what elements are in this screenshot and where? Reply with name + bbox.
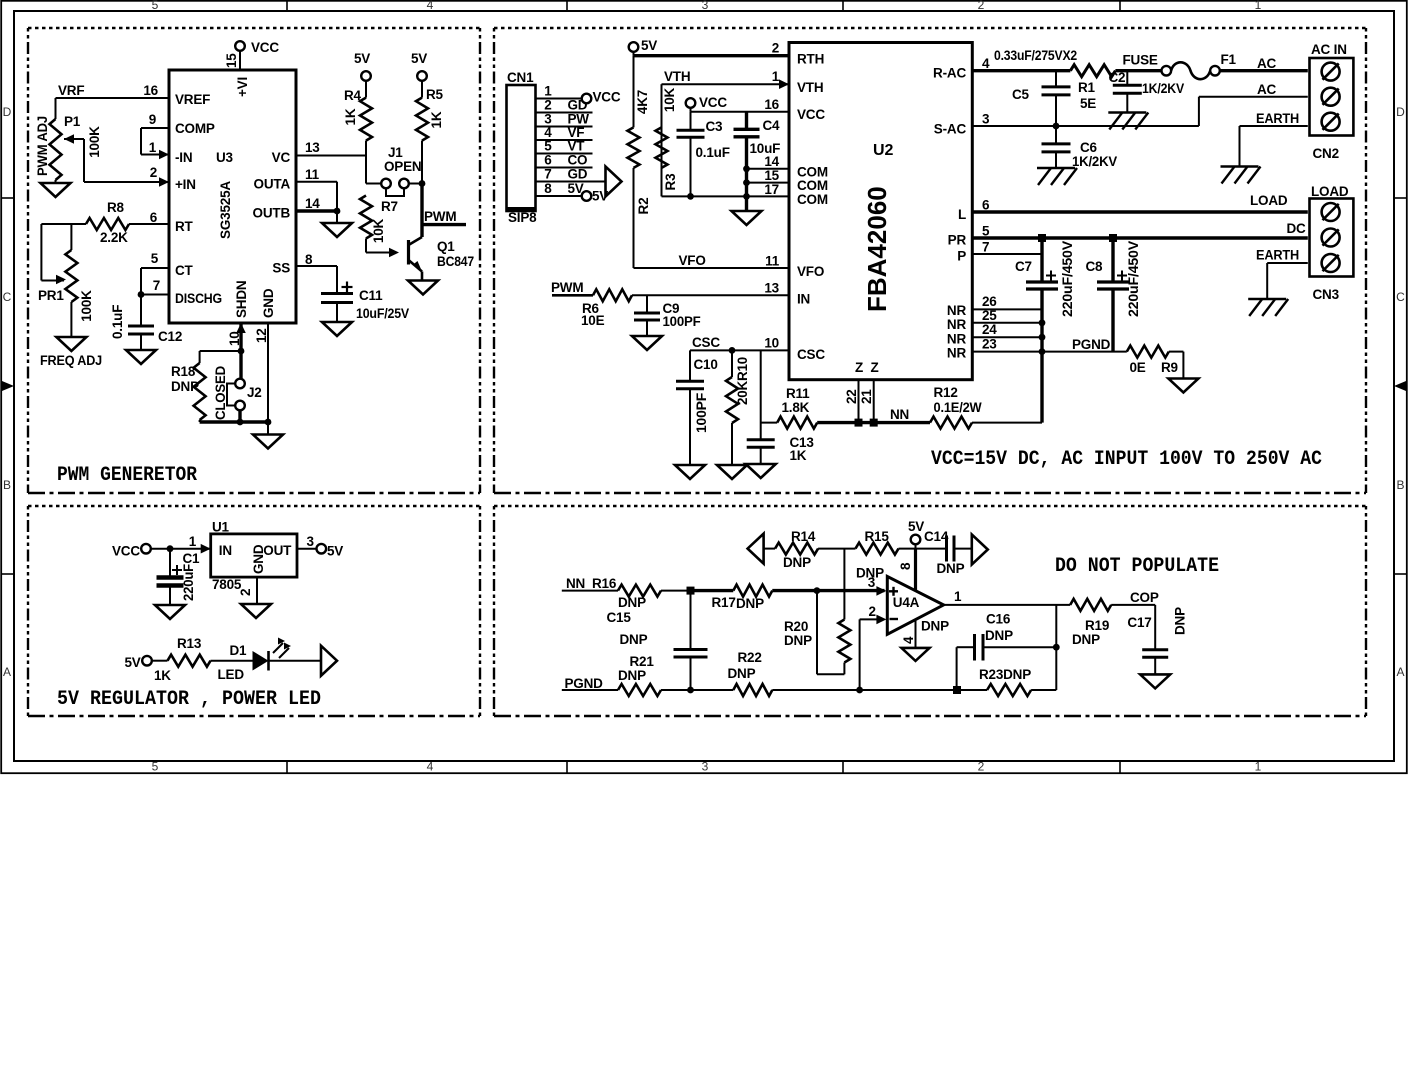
- svg-text:FBA42060: FBA42060: [862, 186, 892, 312]
- svg-text:PWM ADJ: PWM ADJ: [35, 116, 50, 176]
- svg-text:5V: 5V: [908, 519, 924, 534]
- svg-text:C6: C6: [1080, 140, 1098, 155]
- svg-text:DNP: DNP: [783, 555, 811, 570]
- svg-text:D: D: [1396, 105, 1405, 119]
- svg-text:2: 2: [544, 98, 551, 113]
- svg-text:SS: SS: [272, 261, 290, 276]
- svg-text:C5: C5: [1012, 87, 1030, 102]
- svg-text:7: 7: [153, 278, 160, 293]
- svg-text:VFO: VFO: [797, 264, 824, 279]
- svg-text:J1: J1: [388, 145, 403, 160]
- svg-text:3: 3: [702, 0, 709, 12]
- svg-text:CO: CO: [568, 153, 588, 168]
- svg-text:CSC: CSC: [797, 347, 825, 362]
- svg-text:6: 6: [150, 210, 158, 225]
- svg-text:R21: R21: [630, 654, 655, 669]
- svg-text:R20: R20: [784, 619, 808, 634]
- svg-text:2: 2: [978, 0, 985, 12]
- svg-text:100K: 100K: [79, 290, 94, 322]
- svg-text:+VI: +VI: [235, 77, 250, 97]
- svg-text:12: 12: [254, 328, 269, 343]
- svg-text:R19: R19: [1085, 618, 1109, 633]
- svg-text:IN: IN: [219, 543, 232, 558]
- svg-text:U3: U3: [216, 150, 234, 165]
- svg-text:4K7: 4K7: [635, 90, 650, 114]
- svg-text:21: 21: [859, 389, 874, 404]
- svg-text:+IN: +IN: [175, 177, 196, 192]
- svg-text:DNP: DNP: [1173, 607, 1188, 635]
- svg-text:R16: R16: [592, 576, 617, 591]
- svg-text:D: D: [3, 105, 12, 119]
- svg-text:1K/2KV: 1K/2KV: [1072, 154, 1117, 169]
- svg-text:VCC: VCC: [251, 40, 279, 55]
- svg-text:1: 1: [954, 589, 962, 604]
- svg-text:R8: R8: [107, 200, 125, 215]
- svg-text:OUT: OUT: [263, 543, 292, 558]
- svg-text:C: C: [3, 290, 12, 304]
- svg-text:100K: 100K: [87, 126, 102, 158]
- svg-text:COMP: COMP: [175, 121, 215, 136]
- svg-text:U1: U1: [212, 520, 230, 535]
- svg-text:NN: NN: [566, 576, 585, 591]
- svg-text:1K: 1K: [154, 668, 171, 683]
- svg-text:C2: C2: [1109, 70, 1126, 85]
- svg-text:AC: AC: [1257, 56, 1277, 71]
- svg-text:1K: 1K: [429, 111, 444, 128]
- svg-text:F1: F1: [1221, 52, 1237, 67]
- svg-text:J2: J2: [247, 385, 262, 400]
- svg-text:2: 2: [150, 165, 157, 180]
- svg-text:LED: LED: [218, 667, 245, 682]
- svg-text:VTH: VTH: [797, 80, 823, 95]
- svg-text:B: B: [1396, 478, 1404, 492]
- svg-text:FUSE: FUSE: [1123, 53, 1158, 68]
- svg-text:23: 23: [982, 337, 997, 352]
- svg-text:VTH: VTH: [664, 69, 690, 84]
- svg-text:1K: 1K: [343, 108, 358, 125]
- svg-text:VFO: VFO: [679, 253, 706, 268]
- svg-text:15: 15: [764, 168, 779, 183]
- svg-text:Z: Z: [855, 360, 863, 375]
- svg-text:R1: R1: [1078, 80, 1096, 95]
- svg-text:8: 8: [544, 181, 552, 196]
- svg-text:5: 5: [151, 251, 159, 266]
- svg-text:3: 3: [702, 760, 709, 774]
- svg-text:2.2K: 2.2K: [100, 230, 128, 245]
- svg-text:B: B: [3, 478, 11, 492]
- svg-text:1: 1: [544, 84, 552, 99]
- svg-text:0.1uF: 0.1uF: [110, 305, 125, 339]
- svg-text:NR: NR: [947, 331, 967, 346]
- svg-text:VCC: VCC: [593, 90, 621, 105]
- svg-text:220uF/450V: 220uF/450V: [1126, 241, 1141, 317]
- svg-text:11: 11: [305, 167, 320, 182]
- svg-text:PWM: PWM: [551, 280, 583, 295]
- svg-text:C16: C16: [986, 612, 1011, 627]
- svg-text:5E: 5E: [1080, 96, 1096, 111]
- svg-text:R4: R4: [344, 88, 362, 103]
- svg-text:PR1: PR1: [38, 288, 64, 303]
- svg-text:DNP: DNP: [937, 561, 965, 576]
- svg-text:R2: R2: [636, 198, 651, 215]
- svg-text:2: 2: [772, 41, 779, 56]
- svg-text:AC: AC: [1257, 82, 1277, 97]
- svg-text:1K: 1K: [790, 448, 807, 463]
- svg-text:PGND: PGND: [565, 676, 604, 691]
- svg-text:8: 8: [305, 252, 313, 267]
- svg-text:0.1uF: 0.1uF: [696, 145, 730, 160]
- svg-text:DC: DC: [1287, 221, 1307, 236]
- svg-text:DNP: DNP: [620, 632, 648, 647]
- svg-text:R15: R15: [865, 529, 890, 544]
- svg-text:R13: R13: [177, 636, 202, 651]
- svg-text:DNP: DNP: [985, 628, 1013, 643]
- svg-text:24: 24: [982, 322, 997, 337]
- svg-text:R-AC: R-AC: [933, 66, 966, 81]
- svg-text:1: 1: [149, 140, 157, 155]
- svg-text:RTH: RTH: [797, 52, 824, 67]
- svg-text:C12: C12: [158, 329, 182, 344]
- svg-text:6: 6: [544, 153, 552, 168]
- svg-text:R7: R7: [381, 199, 398, 214]
- svg-text:COP: COP: [1130, 590, 1159, 605]
- svg-text:5V: 5V: [327, 544, 343, 559]
- svg-text:D1: D1: [230, 643, 248, 658]
- svg-text:C: C: [1396, 290, 1405, 304]
- svg-text:COM: COM: [797, 192, 828, 207]
- svg-text:CSC: CSC: [692, 335, 720, 350]
- svg-text:4: 4: [427, 760, 434, 774]
- svg-text:5V: 5V: [411, 51, 427, 66]
- svg-text:PGND: PGND: [1072, 337, 1111, 352]
- svg-text:C15: C15: [607, 610, 632, 625]
- svg-text:5V REGULATOR , POWER LED: 5V REGULATOR , POWER LED: [57, 688, 321, 711]
- svg-text:C17: C17: [1127, 615, 1151, 630]
- svg-text:AC IN: AC IN: [1311, 42, 1347, 57]
- svg-text:PR: PR: [948, 233, 967, 248]
- svg-text:OUTA: OUTA: [254, 177, 291, 192]
- svg-text:5: 5: [544, 139, 552, 154]
- svg-text:S-AC: S-AC: [934, 122, 967, 137]
- svg-text:7: 7: [982, 240, 989, 255]
- svg-text:A: A: [3, 665, 11, 679]
- svg-text:LOAD: LOAD: [1311, 184, 1349, 199]
- svg-text:RT: RT: [175, 219, 194, 234]
- svg-text:R3: R3: [663, 173, 678, 191]
- svg-text:4: 4: [427, 0, 434, 12]
- svg-text:CN1: CN1: [507, 70, 534, 85]
- svg-text:DNP: DNP: [728, 666, 756, 681]
- svg-text:1: 1: [772, 69, 780, 84]
- svg-text:VREF: VREF: [175, 92, 210, 107]
- svg-text:R14: R14: [791, 529, 816, 544]
- svg-text:DO NOT POPULATE: DO NOT POPULATE: [1055, 555, 1219, 578]
- svg-text:2: 2: [978, 760, 985, 774]
- svg-text:14: 14: [764, 154, 779, 169]
- svg-text:C10: C10: [694, 357, 718, 372]
- svg-text:Z: Z: [870, 360, 878, 375]
- svg-text:11: 11: [765, 254, 780, 269]
- svg-text:5: 5: [152, 760, 159, 774]
- svg-text:1: 1: [1255, 0, 1262, 12]
- svg-text:GND: GND: [261, 288, 276, 318]
- svg-text:13: 13: [764, 281, 779, 296]
- svg-text:DNP: DNP: [618, 668, 646, 683]
- svg-text:-IN: -IN: [175, 150, 192, 165]
- svg-text:VRF: VRF: [58, 83, 84, 98]
- svg-text:16: 16: [143, 83, 158, 98]
- svg-text:DNP: DNP: [171, 379, 199, 394]
- svg-text:14: 14: [305, 196, 320, 211]
- svg-text:DNP: DNP: [736, 596, 764, 611]
- svg-text:CT: CT: [175, 263, 194, 278]
- svg-text:R23DNP: R23DNP: [979, 667, 1031, 682]
- svg-text:CLOSED: CLOSED: [213, 366, 228, 420]
- svg-text:4: 4: [982, 56, 990, 71]
- svg-text:EARTH: EARTH: [1256, 248, 1299, 263]
- svg-text:5V: 5V: [641, 38, 657, 53]
- svg-text:SHDN: SHDN: [234, 281, 249, 318]
- svg-text:U2: U2: [873, 142, 894, 159]
- svg-text:VCC: VCC: [699, 95, 727, 110]
- svg-text:9: 9: [149, 112, 156, 127]
- svg-text:C8: C8: [1086, 259, 1104, 274]
- svg-text:22: 22: [844, 389, 859, 404]
- svg-text:20KR10: 20KR10: [735, 357, 750, 405]
- svg-text:10uF/25V: 10uF/25V: [356, 306, 409, 321]
- svg-text:PWM: PWM: [424, 209, 456, 224]
- svg-text:DNP: DNP: [856, 566, 884, 581]
- svg-text:P: P: [957, 249, 966, 264]
- svg-text:17: 17: [764, 182, 779, 197]
- svg-text:100PF: 100PF: [663, 314, 701, 329]
- svg-text:10: 10: [764, 336, 779, 351]
- svg-text:8: 8: [898, 562, 913, 570]
- svg-text:CN2: CN2: [1313, 146, 1339, 161]
- svg-text:15: 15: [224, 53, 239, 68]
- svg-text:Q1: Q1: [437, 239, 455, 254]
- svg-text:1: 1: [189, 534, 197, 549]
- svg-text:R11: R11: [786, 386, 810, 401]
- svg-text:GD: GD: [568, 167, 588, 182]
- svg-text:COM: COM: [797, 178, 828, 193]
- svg-text:IN: IN: [797, 291, 810, 306]
- svg-text:1.8K: 1.8K: [782, 400, 810, 415]
- svg-text:NR: NR: [947, 303, 967, 318]
- svg-text:OUTB: OUTB: [253, 206, 291, 221]
- svg-text:P1: P1: [64, 114, 81, 129]
- svg-text:DNP: DNP: [1072, 632, 1100, 647]
- svg-text:R12: R12: [934, 385, 958, 400]
- svg-text:R17: R17: [712, 595, 736, 610]
- svg-text:1K/2KV: 1K/2KV: [1142, 81, 1184, 96]
- svg-text:FREQ ADJ: FREQ ADJ: [40, 353, 102, 368]
- svg-text:LOAD: LOAD: [1250, 193, 1288, 208]
- svg-text:R18: R18: [171, 364, 196, 379]
- svg-text:VC: VC: [272, 150, 291, 165]
- svg-text:0.1E/2W: 0.1E/2W: [934, 400, 982, 415]
- svg-text:NR: NR: [947, 346, 967, 361]
- svg-text:C4: C4: [763, 118, 781, 133]
- svg-text:COM: COM: [797, 164, 828, 179]
- svg-text:16: 16: [764, 97, 779, 112]
- svg-text:DNP: DNP: [784, 633, 812, 648]
- svg-text:BC847: BC847: [437, 254, 474, 269]
- svg-text:VT: VT: [568, 139, 586, 154]
- svg-text:DNP: DNP: [921, 619, 949, 634]
- svg-text:2: 2: [868, 604, 875, 619]
- svg-text:5: 5: [982, 224, 990, 239]
- svg-text:10K: 10K: [371, 218, 386, 243]
- svg-text:5V: 5V: [125, 655, 141, 670]
- svg-text:10: 10: [227, 331, 242, 346]
- svg-text:R5: R5: [426, 87, 444, 102]
- svg-text:13: 13: [305, 140, 320, 155]
- svg-text:PWM GENERETOR: PWM GENERETOR: [57, 464, 197, 487]
- svg-text:C11: C11: [359, 288, 383, 303]
- svg-text:R22: R22: [738, 650, 762, 665]
- svg-text:5: 5: [152, 0, 159, 12]
- svg-text:VCC: VCC: [112, 544, 140, 559]
- svg-text:EARTH: EARTH: [1256, 111, 1299, 126]
- svg-text:L: L: [958, 207, 966, 222]
- svg-text:26: 26: [982, 294, 997, 309]
- svg-text:NN: NN: [890, 407, 909, 422]
- svg-text:1: 1: [1255, 760, 1262, 774]
- svg-text:R9: R9: [1161, 360, 1178, 375]
- svg-text:C1: C1: [183, 551, 201, 566]
- svg-text:100PF: 100PF: [694, 393, 709, 433]
- svg-text:C7: C7: [1015, 259, 1032, 274]
- svg-text:0E: 0E: [1130, 360, 1146, 375]
- svg-text:SIP8: SIP8: [508, 210, 537, 225]
- svg-text:U4A: U4A: [893, 595, 920, 610]
- svg-text:10K: 10K: [662, 87, 677, 112]
- svg-text:2: 2: [238, 589, 253, 596]
- svg-text:DNP: DNP: [618, 595, 646, 610]
- svg-text:OPEN: OPEN: [384, 159, 421, 174]
- svg-text:VCC: VCC: [797, 107, 825, 122]
- svg-text:VCC=15V DC, AC INPUT 100V TO 2: VCC=15V DC, AC INPUT 100V TO 250V AC: [931, 448, 1322, 471]
- svg-text:SG3525A: SG3525A: [218, 181, 233, 239]
- svg-text:3: 3: [982, 112, 990, 127]
- svg-text:0.33uF/275VX2: 0.33uF/275VX2: [994, 48, 1077, 63]
- svg-text:10E: 10E: [581, 313, 605, 328]
- svg-text:DISCHG: DISCHG: [175, 291, 222, 306]
- svg-text:220uF/450V: 220uF/450V: [1060, 241, 1075, 317]
- svg-text:C3: C3: [706, 119, 724, 134]
- svg-text:220uF: 220uF: [181, 564, 196, 601]
- svg-text:6: 6: [982, 198, 990, 213]
- svg-text:5V: 5V: [354, 51, 370, 66]
- svg-text:7: 7: [544, 167, 551, 182]
- svg-text:3: 3: [307, 534, 315, 549]
- svg-text:CN3: CN3: [1313, 287, 1340, 302]
- svg-text:A: A: [1396, 665, 1404, 679]
- svg-text:NR: NR: [947, 317, 967, 332]
- svg-text:4: 4: [901, 636, 916, 644]
